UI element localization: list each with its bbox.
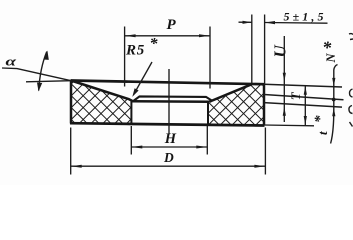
bore left edge — [130, 101, 132, 125]
hatched left flange section — [71, 81, 132, 125]
svg-text:U: U — [271, 45, 290, 58]
D extension line left — [70, 128, 72, 175]
svg-text:D: D — [163, 150, 174, 165]
N dot terminator on line2 — [332, 98, 336, 102]
bore right edge — [207, 102, 209, 126]
T arrow up (tip on line1) — [304, 86, 307, 95]
svg-text:R5: R5 — [125, 43, 145, 59]
clipped glyph at right edge top — [349, 34, 353, 40]
D dimension line — [71, 165, 266, 167]
alpha underline leader — [2, 68, 71, 81]
f arrow up (tip on line3) — [332, 107, 335, 116]
P arrow left — [125, 34, 136, 37]
body left edge — [70, 80, 73, 124]
clipped glyph at right edge lower — [349, 106, 353, 114]
D arrow right — [254, 165, 265, 168]
body top surface line — [71, 81, 264, 85]
svg-text:t: t — [315, 131, 330, 135]
U arrow up (tip on line3) — [283, 107, 286, 116]
right recess slope — [210, 84, 252, 101]
D extension line right — [264, 128, 266, 175]
svg-text:α: α — [6, 54, 18, 69]
body bottom line — [70, 123, 265, 125]
5±1,5 arrow right (tip at body edge ext) — [265, 21, 275, 24]
U dimension line — [283, 36, 285, 122]
H dimension line — [131, 146, 207, 148]
hatched right flange section — [208, 84, 264, 125]
U arrow down (tip on line1) — [283, 73, 286, 82]
H extension line left — [130, 126, 132, 155]
svg-text:*: * — [313, 115, 329, 123]
right side line2 — [264, 95, 344, 100]
svg-text:5±1,5: 5±1,5 — [284, 10, 327, 24]
top surface extension left — [26, 81, 71, 82]
N dimension line — [331, 65, 338, 144]
5±1,5 dimension line left part — [239, 21, 252, 23]
5±1,5 extension line right / body edge extended — [264, 15, 266, 84]
right side line1 top surface extension — [264, 84, 342, 87]
svg-text:*: * — [150, 36, 159, 53]
T dimension line — [304, 86, 306, 125]
alpha dimension arc — [39, 52, 47, 91]
P arrow right — [199, 34, 210, 37]
clipped tick at right edge bottom — [350, 122, 353, 127]
P extension line left — [124, 27, 126, 87]
centerline — [168, 69, 170, 134]
right side line3 — [264, 103, 342, 108]
N arrow down (tip on line1) — [332, 78, 335, 87]
H extension line right — [206, 126, 208, 155]
recess far-edge line — [134, 96, 212, 101]
left recess slope — [71, 81, 133, 102]
alpha arc arrow top — [44, 51, 49, 60]
clipped glyph at right edge middle — [350, 89, 353, 97]
right side line4 bottom extension — [264, 124, 314, 127]
5±1,5 extension line left — [251, 15, 253, 85]
svg-text:T: T — [288, 91, 303, 100]
svg-text:*: * — [322, 38, 332, 58]
P dimension line — [125, 35, 210, 37]
H arrow right — [196, 146, 207, 149]
5±1,5 dimension line right part — [265, 22, 328, 25]
T arrow down (tip on line4) — [304, 116, 307, 125]
H arrow left — [131, 146, 142, 149]
alpha arc arrow bottom — [37, 83, 42, 92]
body right edge — [263, 84, 266, 125]
P extension line right — [209, 27, 211, 89]
5±1,5 arrow left — [243, 21, 252, 24]
svg-text:P: P — [167, 17, 177, 33]
R5 leader arrow — [132, 88, 138, 97]
D arrow left — [71, 165, 82, 168]
R5 leader — [135, 62, 153, 93]
recess bottom line — [132, 100, 210, 103]
svg-text:H: H — [164, 131, 177, 147]
